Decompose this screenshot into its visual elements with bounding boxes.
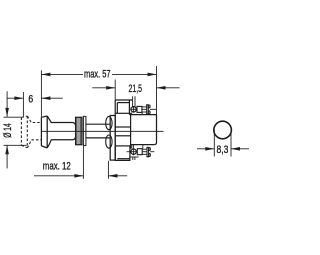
svg-text:max. 12: max. 12 (43, 161, 71, 173)
extension line knob face (40, 70, 42, 117)
knob pulled position (dashed) (21, 116, 41, 148)
body front section (115, 100, 130, 160)
dimension 21,5 (92, 86, 179, 90)
terminal screw bottom (127, 145, 139, 160)
knob (solid) (41, 116, 75, 148)
svg-text:Ø 14: Ø 14 (2, 123, 14, 138)
mounting hole circle (214, 121, 232, 139)
dimension 8,3 (197, 130, 249, 157)
centerline axis (41, 130, 163, 132)
terminal line top (150, 108, 156, 110)
dimension max. 57 (41, 73, 156, 77)
svg-text:max. 57: max. 57 (84, 68, 111, 80)
body rear section (129, 115, 156, 145)
clamp bars top (142, 107, 147, 112)
terminal line bottom (150, 151, 154, 153)
svg-text:21,5: 21,5 (129, 83, 143, 95)
blade terminal bottom (147, 147, 150, 156)
knurled nut (76, 117, 82, 144)
mounting flange (110, 116, 115, 161)
bottom terminal pedestal (132, 145, 143, 149)
knurl hatching (77, 117, 81, 144)
terminal screw top (130, 96, 137, 112)
extension line 21,5 left (114, 80, 116, 101)
extension line body rear (156, 66, 158, 115)
dimension 6 (7, 96, 63, 100)
wire clamp top (137, 106, 142, 112)
top terminal pedestal (132, 112, 143, 114)
extension line 6 left (22, 92, 24, 117)
clamp bars bottom (142, 149, 147, 154)
dimension max. 12 (34, 146, 127, 179)
svg-text:8,3: 8,3 (217, 144, 229, 156)
blade terminal top (147, 105, 150, 114)
flange lug bottom (106, 135, 112, 148)
washer (83, 116, 86, 145)
wire clamp bottom (137, 149, 142, 155)
svg-text:6: 6 (28, 93, 33, 105)
threaded bushing (86, 124, 110, 138)
flange lug top (106, 117, 112, 130)
bottom block (115, 146, 130, 161)
dimension dia 14 (4, 91, 27, 168)
top box (115, 100, 132, 115)
